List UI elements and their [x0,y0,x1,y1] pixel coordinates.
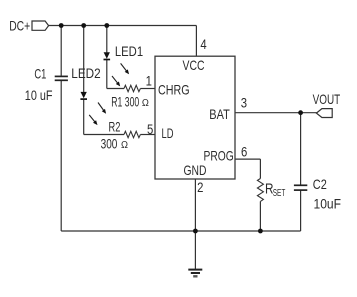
wire pin 4 VCC drop [195,26,197,57]
svg-text:LD: LD [162,125,174,141]
wire LED2 anode lead [83,26,85,93]
node junction dot BAT VOUT [298,110,303,115]
wire RSET to ground rail [259,201,261,231]
svg-text:6: 6 [241,144,247,159]
svg-text:4: 4 [200,37,207,52]
wire pin 6 PROG horizontal [235,158,260,160]
svg-text:LED2: LED2 [71,65,101,81]
wire LED2 cathode lead [83,99,85,134]
LED LED2 diode triangle [81,92,87,98]
svg-text:Ω: Ω [142,97,149,109]
wire R1 to pin 1 CHRG [140,88,155,90]
svg-text:BAT: BAT [209,106,230,122]
wire LED2 to R2 [84,134,124,136]
LED LED2 emission arrow b [89,115,97,125]
node junction dot top rail LED2 [81,23,86,28]
svg-text:C1: C1 [34,66,46,82]
LED LED2 cathode bar [80,98,87,100]
resistor R2 zigzag [124,131,140,137]
wire C1 bottom lead to ground rail [60,81,62,231]
svg-text:LED1: LED1 [115,43,143,59]
wire C1 top lead [60,26,62,76]
svg-text:C2: C2 [313,176,327,192]
wire ground stem [194,231,196,269]
node DC+ input connector [32,21,49,30]
svg-text:1: 1 [146,74,152,89]
node VOUT output connector [316,109,332,118]
resistor RSET zigzag [257,179,263,202]
LED LED1 diode triangle [104,52,110,58]
wire R2 to pin 5 LD [140,134,155,136]
LED LED1 emission arrow b [112,76,120,86]
wire pin 3 BAT to VOUT [235,112,317,114]
svg-text:3: 3 [241,95,247,110]
node junction dot ground rail GND pin [193,229,198,234]
wire PROG down to RSET [259,159,261,178]
svg-text:R1 300: R1 300 [111,93,139,109]
LED LED1 emission arrow a [121,63,130,74]
wire VOUT node down to C2 [300,113,302,185]
wire bottom ground rail [61,230,300,232]
svg-text:VCC: VCC [183,57,205,73]
LED LED2 emission arrow a [98,103,106,114]
wire C2 bottom lead to ground rail [300,191,302,232]
svg-text:DC+: DC+ [9,18,30,34]
svg-text:R2: R2 [109,119,121,135]
resistor R1 zigzag [124,85,140,91]
svg-text:5: 5 [147,122,153,137]
svg-text:PROG: PROG [204,147,234,163]
svg-text:SET: SET [273,187,286,199]
svg-text:CHRG: CHRG [158,82,190,98]
svg-text:Ω: Ω [121,139,128,151]
svg-text:2: 2 [197,180,203,195]
ground symbol [188,270,202,277]
wire pin 2 GND to ground rail [194,179,196,231]
svg-text:VOUT: VOUT [313,91,341,107]
wire LED1 anode lead [106,26,108,53]
svg-text:GND: GND [184,162,207,178]
LED LED1 cathode bar [104,59,111,61]
node junction dot ground rail RSET [258,229,263,234]
capacitor C2 plates [294,185,307,190]
node junction dot top rail C1 [59,23,64,28]
svg-text:10 uF: 10 uF [25,87,53,103]
wire LED1 cathode lead [106,59,108,88]
op-amp U1 charger IC box [155,56,235,179]
node junction dot top rail LED1 [104,23,109,28]
wire LED1 to R1 [107,88,124,90]
svg-text:300: 300 [101,136,118,152]
svg-text:10uF: 10uF [314,196,342,212]
capacitor C1 plates [55,76,68,80]
wire top rail DC+ to VCC [49,25,197,27]
